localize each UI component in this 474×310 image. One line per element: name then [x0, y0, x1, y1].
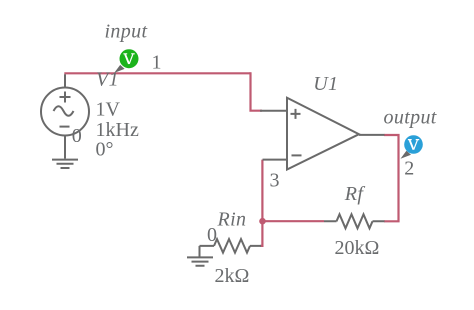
node label 0 at Rin — [207, 224, 217, 246]
svg-text:0: 0 — [72, 125, 82, 147]
svg-text:U1: U1 — [313, 73, 338, 95]
node label 2 — [404, 158, 414, 180]
refdes Rin — [217, 209, 247, 231]
refdes U1 — [313, 73, 338, 95]
svg-text:20kΩ: 20kΩ — [335, 237, 380, 259]
resistor Rf body — [337, 214, 373, 228]
ground at V1 — [52, 160, 78, 168]
resistor Rin leads — [200, 245, 262, 247]
voltage source V1 top lead — [64, 74, 66, 88]
wire node 3 horizontal from junction to Rf left lead — [263, 220, 325, 222]
node label 0 at V1 — [72, 125, 82, 147]
svg-text:1kHz: 1kHz — [96, 119, 139, 141]
svg-text:2kΩ: 2kΩ — [215, 265, 250, 287]
probe input tail — [114, 65, 124, 73]
svg-text:input: input — [105, 21, 148, 43]
probe input circle — [120, 49, 139, 68]
junction node 3 — [259, 218, 266, 225]
value 1kHz — [96, 119, 139, 141]
ground at Rin — [187, 246, 213, 266]
probe output tail — [401, 151, 412, 159]
label input — [105, 21, 148, 43]
node label 1 — [152, 52, 162, 74]
resistor Rf leads — [324, 220, 385, 222]
wire node 1 top horizontal from V1 to corner — [64, 72, 250, 74]
op-amp U1 leads — [260, 111, 385, 160]
value 1V — [96, 99, 121, 121]
svg-text:2: 2 — [404, 158, 414, 180]
svg-text:1: 1 — [152, 52, 162, 74]
voltage source V1 body — [41, 88, 89, 136]
svg-text:1V: 1V — [96, 99, 121, 121]
resistor Rin body — [214, 239, 250, 253]
value 0deg — [96, 139, 114, 161]
node label 3 — [270, 169, 280, 191]
label output — [384, 106, 437, 128]
svg-text:Rf: Rf — [344, 183, 366, 205]
svg-text:0°: 0° — [96, 139, 114, 161]
refdes Rf — [344, 183, 366, 205]
value 2kOhm — [215, 265, 250, 287]
wire node 2 from op-amp output lead to corner and down to Rf right lead — [384, 135, 399, 221]
op-amp U1 body — [287, 98, 359, 170]
probe output circle — [404, 135, 423, 154]
value 20kOhm — [335, 237, 380, 259]
wire node 3 vertical from op-amp - input down past junction to Rin level — [260, 160, 262, 246]
svg-text:V1: V1 — [96, 68, 119, 90]
svg-text:Rin: Rin — [217, 209, 247, 231]
refdes V1 — [96, 68, 119, 90]
svg-text:output: output — [384, 106, 437, 128]
svg-text:3: 3 — [270, 169, 280, 191]
svg-text:0: 0 — [207, 224, 217, 246]
voltage source V1 bottom lead — [64, 136, 66, 159]
wire node 1 vertical drop to op-amp + input — [251, 72, 263, 110]
